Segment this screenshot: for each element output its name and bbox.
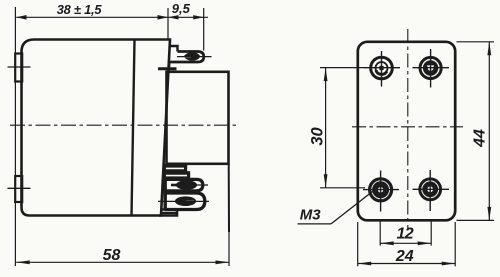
lower pin B blob xyxy=(175,196,196,206)
svg-text:38 ± 1,5: 38 ± 1,5 xyxy=(57,2,103,17)
lower pin B centerline tick xyxy=(158,200,209,202)
dimension line 58 xyxy=(16,261,229,263)
svg-text:24: 24 xyxy=(395,248,414,265)
mounting plate xyxy=(358,42,455,221)
lower pin A xyxy=(164,179,203,190)
dimension line 24 xyxy=(358,263,456,265)
top contact pin xyxy=(169,52,204,68)
svg-text:12: 12 xyxy=(396,226,413,243)
top pin solder blob xyxy=(184,52,201,61)
lower pin A blob xyxy=(176,180,197,190)
svg-text:30: 30 xyxy=(309,127,327,146)
pin cluster base strip xyxy=(163,165,166,211)
dimension line 38±1,5 xyxy=(16,16,168,18)
lower pin stub 1 xyxy=(164,165,186,171)
hole bottom-right M3 xyxy=(413,170,450,211)
extension line at can top right xyxy=(167,8,169,39)
flange hole centerline upper xyxy=(8,66,31,68)
svg-text:M3: M3 xyxy=(300,207,321,224)
M3 leader line xyxy=(298,223,332,225)
centerline of left view xyxy=(10,124,238,126)
hole top-right M3 xyxy=(413,49,450,88)
plate vertical centerline xyxy=(407,29,409,229)
flange hole centerline lower xyxy=(8,187,31,189)
dimension line 30 xyxy=(325,68,327,188)
hole top-left M3 xyxy=(364,51,400,87)
lower pin A tick xyxy=(193,184,208,186)
dimension line 9,5 xyxy=(168,16,208,18)
plate horizontal centerline xyxy=(352,126,463,128)
left flange edge / extension line xyxy=(14,7,16,266)
lower pin stub 2 xyxy=(164,172,189,178)
top pin step notch xyxy=(169,46,178,52)
dimension line 12 xyxy=(380,242,431,244)
bottom step bracket xyxy=(159,210,177,216)
extension lines for 12 xyxy=(379,219,381,246)
mounting flange tab lower xyxy=(15,176,22,202)
mounting flange tab upper xyxy=(15,54,22,82)
svg-text:9,5: 9,5 xyxy=(172,1,191,16)
bar below top pin xyxy=(158,67,177,70)
svg-text:58: 58 xyxy=(103,247,121,264)
hole bottom-left M3 xyxy=(363,171,399,212)
socket block xyxy=(167,72,229,164)
relay can body xyxy=(22,40,171,216)
top pin centerline tick xyxy=(177,56,212,58)
lower pin B xyxy=(165,193,205,210)
extension lines for 24 xyxy=(357,222,359,266)
dimension line 44 xyxy=(488,42,490,221)
socket right edge extension down xyxy=(228,164,230,232)
extension line at pin tip xyxy=(203,8,205,51)
svg-text:44: 44 xyxy=(472,129,489,148)
extension lines for 30 xyxy=(320,67,366,69)
extension lines for 44 xyxy=(457,41,495,43)
can seam line xyxy=(132,40,135,216)
